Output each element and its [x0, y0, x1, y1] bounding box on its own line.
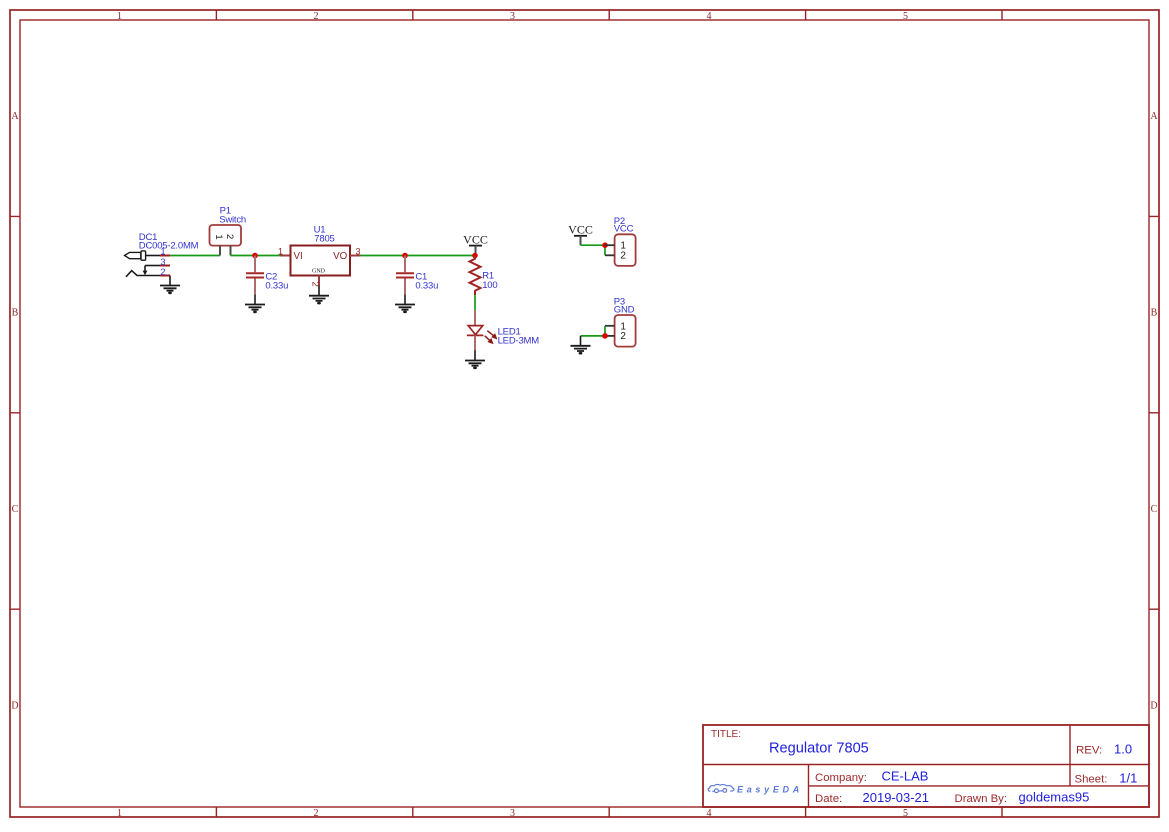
svg-text:2: 2 — [310, 282, 321, 287]
capacitor C2 0.33u — [246, 256, 288, 305]
svg-text:GND: GND — [312, 268, 326, 274]
wire P3 pin2 to ground — [581, 335, 606, 337]
svg-text:VI: VI — [294, 251, 303, 262]
svg-text:5: 5 — [903, 808, 908, 819]
svg-text:2: 2 — [314, 11, 319, 22]
svg-text:2019-03-21: 2019-03-21 — [863, 790, 930, 805]
connector P3 GND — [605, 297, 636, 347]
svg-text:4: 4 — [707, 808, 712, 819]
svg-text:1/1: 1/1 — [1119, 771, 1137, 786]
svg-text:1: 1 — [160, 247, 165, 257]
svg-text:LED-3MM: LED-3MM — [498, 335, 540, 346]
ground (C1) — [395, 305, 415, 314]
svg-text:A: A — [11, 111, 19, 122]
capacitor C1 0.33u — [396, 256, 438, 305]
svg-text:3: 3 — [160, 257, 165, 267]
svg-text:2: 2 — [620, 331, 626, 342]
svg-text:2: 2 — [314, 808, 319, 819]
svg-text:Company:: Company: — [815, 772, 867, 784]
ground (P3) — [571, 336, 591, 355]
svg-text:5: 5 — [903, 11, 908, 22]
svg-text:2: 2 — [160, 267, 165, 277]
ground (DC1 pin2) — [160, 286, 180, 295]
svg-text:3: 3 — [510, 808, 515, 819]
svg-text:3: 3 — [355, 246, 360, 256]
svg-text:TITLE:: TITLE: — [711, 729, 741, 740]
svg-text:Drawn By:: Drawn By: — [955, 793, 1008, 805]
svg-text:REV:: REV: — [1076, 745, 1102, 757]
LED LED1 LED-3MM — [467, 310, 539, 360]
svg-text:D: D — [11, 701, 18, 712]
connector P2 VCC — [605, 216, 636, 266]
connector DC1 DC005-2.0MM — [125, 232, 199, 286]
svg-text:Date:: Date: — [815, 793, 842, 805]
svg-text:Switch: Switch — [219, 215, 246, 226]
svg-text:2: 2 — [620, 250, 626, 261]
wire P2 pin2 loop — [604, 245, 606, 255]
svg-text:CE-LAB: CE-LAB — [882, 769, 929, 784]
svg-text:1: 1 — [117, 808, 122, 819]
wire P1 pin2 to U1 VI — [231, 255, 281, 257]
svg-text:DC005-2.0MM: DC005-2.0MM — [139, 240, 199, 251]
regulator U1 7805 — [278, 225, 361, 296]
svg-text:3: 3 — [510, 11, 515, 22]
svg-text:VCC: VCC — [614, 224, 634, 235]
svg-text:0.33u: 0.33u — [265, 280, 288, 291]
svg-text:Sheet:: Sheet: — [1075, 774, 1108, 786]
power flag VCC (net at R1) — [463, 232, 488, 253]
wire P3 pin1 loop — [604, 326, 606, 336]
svg-text:C: C — [1151, 504, 1158, 515]
junction at C2 — [252, 253, 258, 259]
wire VCC to P2 pin1 — [581, 244, 606, 246]
svg-text:1: 1 — [213, 234, 224, 239]
svg-text:1: 1 — [117, 11, 122, 22]
junction at C1 — [402, 253, 408, 259]
svg-text:goldemas95: goldemas95 — [1019, 790, 1090, 805]
svg-text:1.0: 1.0 — [1114, 742, 1132, 757]
switch P1 — [210, 205, 246, 255]
svg-text:0.33u: 0.33u — [415, 280, 438, 291]
svg-text:EasyEDA: EasyEDA — [737, 785, 803, 795]
ground (U1) — [309, 296, 329, 305]
svg-text:4: 4 — [707, 11, 712, 22]
svg-text:B: B — [1151, 308, 1158, 319]
svg-text:A: A — [1150, 111, 1158, 122]
svg-text:7805: 7805 — [314, 234, 334, 245]
wire R1 to LED1 — [474, 295, 476, 310]
power flag VCC (net at P2) — [568, 223, 593, 246]
svg-text:100: 100 — [482, 280, 497, 291]
svg-text:VO: VO — [333, 251, 348, 262]
svg-text:C: C — [12, 504, 19, 515]
svg-text:VCC: VCC — [463, 232, 488, 246]
wire DC1 pin1 to P1 pin1 — [170, 255, 220, 257]
svg-text:VCC: VCC — [568, 223, 593, 237]
wire U1 VO to VCC junction — [361, 255, 476, 257]
title block — [703, 725, 1149, 807]
EasyEDA logo — [708, 784, 803, 794]
resistor R1 100 — [470, 256, 498, 296]
ground (LED1) — [465, 361, 485, 370]
svg-text:2: 2 — [224, 234, 235, 239]
junction at VCC/R1 — [472, 253, 478, 259]
junction at P2 pin1 — [602, 242, 608, 248]
junction at P3 pin2 — [602, 333, 608, 339]
svg-text:Regulator 7805: Regulator 7805 — [769, 741, 869, 757]
svg-text:D: D — [1150, 701, 1157, 712]
svg-text:1: 1 — [278, 246, 283, 256]
ground (C2) — [245, 305, 265, 314]
svg-text:GND: GND — [614, 304, 635, 315]
svg-text:B: B — [12, 308, 19, 319]
